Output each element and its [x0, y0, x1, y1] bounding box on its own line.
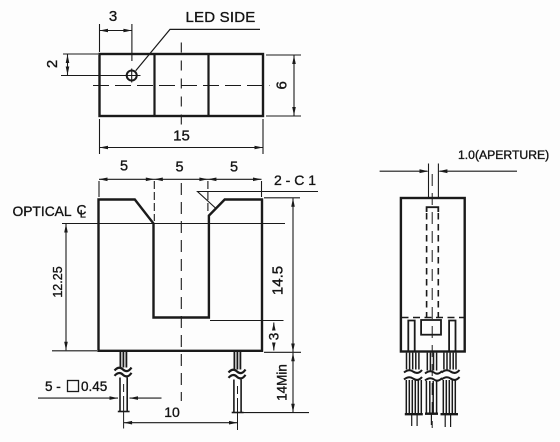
- dimension 6 line with arrows: [293, 56, 295, 116]
- side lead column right break bars: [442, 370, 460, 373]
- svg-text:5: 5: [230, 160, 238, 176]
- top view divider line right: [207, 54, 209, 116]
- svg-text:5 -: 5 -: [45, 379, 61, 394]
- side lead column middle tail: [430, 415, 432, 426]
- dim 5 extension left: [98, 181, 100, 197]
- side lead column left tails: [411, 415, 413, 426]
- dim 14Min bottom extension: [243, 412, 309, 414]
- side lead column middle upper: [427, 353, 436, 371]
- dim 5 extension mid-right: [207, 181, 209, 214]
- front view vertical centerline: [180, 183, 182, 401]
- dim 3 extension line right: [131, 24, 133, 61]
- optical centerline: [62, 223, 285, 225]
- side lead column middle lower: [426, 381, 436, 414]
- dimension 14Min line with arrows: [292, 353, 294, 412]
- side view center box: [421, 320, 441, 335]
- body bottom extension line: [264, 351, 301, 353]
- top view body outline: [100, 54, 264, 116]
- svg-text:1.0(APERTURE): 1.0(APERTURE): [458, 148, 549, 162]
- dimension 2 line with arrows: [67, 55, 69, 76]
- svg-text:OPTICAL: OPTICAL: [13, 204, 72, 219]
- svg-text:12.25: 12.25: [51, 266, 65, 297]
- dim 5 extension mid-left: [153, 181, 155, 221]
- side view left lead slot: [408, 321, 414, 352]
- front left lead lower outline: [118, 378, 130, 412]
- side view channel top bracket: [427, 207, 439, 212]
- dim 2 upper extension line: [63, 53, 98, 55]
- side lead column left upper: [407, 353, 419, 370]
- side view channel dashed line left: [426, 213, 428, 317]
- dim 5 extension right: [261, 181, 263, 197]
- side lead column left lower: [406, 380, 421, 414]
- LED mark horizontal line / dim 2 lower extension: [61, 75, 141, 77]
- svg-text:15: 15: [173, 128, 190, 145]
- slot bottom extension line: [210, 320, 284, 322]
- side lead column right lower: [443, 380, 455, 414]
- svg-text:LED SIDE: LED SIDE: [186, 9, 256, 26]
- centerline symbol: [77, 203, 87, 221]
- front right lead lower outline: [232, 380, 244, 413]
- svg-text:10: 10: [164, 404, 180, 420]
- side lead column right tails: [444, 415, 446, 427]
- LED SIDE leader line: [136, 29, 260, 70]
- dim 6 extension upper: [266, 54, 301, 56]
- front left lead upper lines: [120, 352, 126, 368]
- svg-text:14.5: 14.5: [270, 266, 287, 295]
- svg-text:3: 3: [267, 333, 282, 341]
- top view vertical centerline: [180, 43, 182, 130]
- svg-text:3: 3: [109, 8, 117, 25]
- dim 15 extension right: [262, 119, 264, 154]
- svg-text:6: 6: [274, 81, 291, 89]
- dimension 14.5 line with arrows: [292, 198, 294, 352]
- side view body outline: [401, 198, 465, 352]
- dimension 12.25 line with arrows: [65, 224, 67, 350]
- front left lead centerline tail: [123, 384, 125, 392]
- side view right lead slot: [449, 321, 455, 352]
- dim 14.5 top extension: [264, 197, 300, 199]
- side view channel dashed line right: [437, 213, 439, 317]
- side lead column right upper: [444, 353, 456, 370]
- svg-text:14Min: 14Min: [275, 364, 290, 401]
- dim 3 extension line left: [99, 24, 101, 52]
- front right lead centerline tail: [237, 386, 239, 394]
- dim 15 extension left: [99, 119, 101, 154]
- svg-text:5: 5: [120, 159, 128, 175]
- front right lead upper lines: [234, 352, 240, 370]
- dimension 10 line with arrows: [124, 422, 238, 424]
- dimension 3 line with arrows: [100, 30, 132, 32]
- top view divider line left: [153, 54, 155, 116]
- top view horizontal centerline: [93, 85, 270, 87]
- svg-text:2: 2: [44, 60, 61, 68]
- dim 12.25 bottom extension: [52, 350, 97, 352]
- LED position mark circle: [127, 71, 137, 81]
- dim 6 extension lower: [266, 115, 301, 117]
- front left lead break marks: [115, 368, 132, 372]
- side view vertical centerline: [431, 174, 433, 428]
- side lead column left break bars: [404, 370, 422, 373]
- svg-text:L: L: [80, 208, 86, 220]
- side lead column middle break bars: [425, 371, 442, 374]
- dimension 5 chain line with arrows: [99, 178, 262, 180]
- lead width pointer right: [130, 397, 162, 399]
- svg-text:0.45: 0.45: [81, 379, 107, 394]
- aperture extension line left: [428, 164, 430, 198]
- dimension 15 line with arrows: [100, 147, 264, 149]
- svg-text:2 - C 1: 2 - C 1: [274, 172, 316, 188]
- LED mark cross vertical: [131, 69, 133, 83]
- aperture dimension line with inward arrows: [380, 170, 428, 172]
- lead width pointer left: [38, 397, 118, 399]
- svg-text:5: 5: [175, 160, 183, 176]
- side view hidden slot bottom dashed line: [402, 317, 465, 319]
- front view body outline: [99, 200, 263, 351]
- label 2-C1 leader line: [198, 192, 319, 209]
- front right lead break marks: [229, 370, 246, 374]
- aperture extension line right: [437, 164, 439, 198]
- dimension 3 (slot) arrows: [273, 323, 275, 331]
